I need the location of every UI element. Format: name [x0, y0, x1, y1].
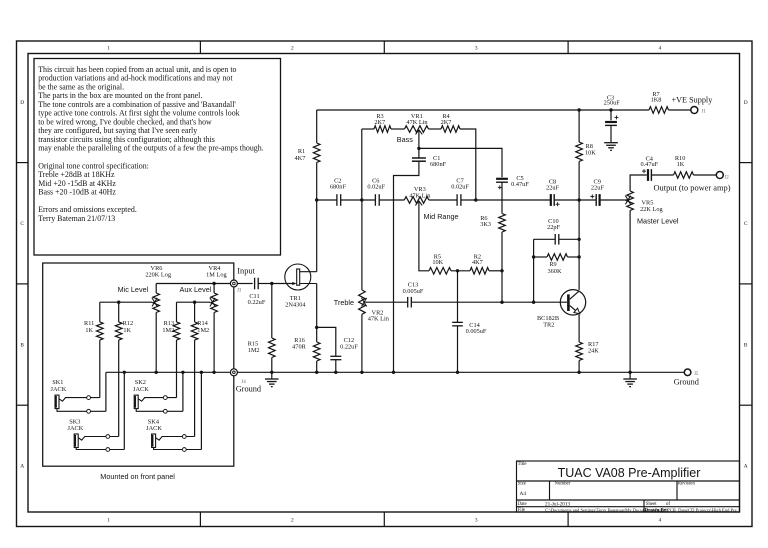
wire panel input line — [156, 283, 230, 285]
svg-text:1M2: 1M2 — [248, 347, 260, 354]
svg-text:be the same as the original.: be the same as the original. — [38, 82, 124, 91]
label C2 value — [330, 178, 347, 191]
label R6 value — [480, 215, 491, 228]
capacitor C9 — [596, 194, 599, 206]
label Input — [237, 266, 255, 275]
resistor R8 — [576, 142, 583, 162]
transistor TR1 gate arrow — [292, 282, 296, 285]
svg-text:360K: 360K — [548, 268, 562, 275]
svg-text:Treble +28dB at 18KHz: Treble +28dB at 18KHz — [38, 170, 115, 179]
wire VR5 bottom leg — [629, 211, 631, 373]
capacitor C6 — [375, 194, 379, 206]
svg-text:47K Lin: 47K Lin — [368, 315, 390, 322]
svg-text:1: 1 — [107, 45, 110, 51]
resistor R6 — [499, 214, 506, 233]
label C6 value — [367, 178, 385, 191]
svg-text:Drawn By:: Drawn By: — [645, 508, 669, 513]
svg-text:Mic Level: Mic Level — [118, 285, 149, 294]
svg-text:47K Lin: 47K Lin — [406, 119, 428, 126]
transistor TR1 channel bar — [297, 269, 300, 285]
wire feedback left leg — [533, 239, 535, 302]
svg-text:0.005uF: 0.005uF — [466, 328, 487, 335]
wire R6 to R2 node — [501, 232, 503, 271]
wire C3 top — [610, 110, 612, 120]
resistor R9 — [547, 254, 568, 261]
note text box — [34, 59, 281, 256]
svg-text:Treble: Treble — [334, 298, 354, 307]
wire node to C1 — [418, 148, 420, 158]
wire C14 to ground rail — [457, 326, 459, 372]
svg-text:TUAC VA08 Pre-Amplifier: TUAC VA08 Pre-Amplifier — [558, 466, 701, 480]
transistor TR1 source stroke — [300, 283, 317, 285]
wire VR1 wiper down — [418, 130, 420, 148]
svg-text:0.47uF: 0.47uF — [511, 181, 529, 188]
capacitor C5 — [496, 179, 508, 182]
junction SK2 sleeve / ground rail — [181, 371, 184, 374]
svg-text:2K7: 2K7 — [441, 119, 452, 126]
junction base row / R2-R6 — [500, 301, 503, 304]
label VR2 value — [368, 310, 390, 323]
svg-text:0.005uF: 0.005uF — [403, 288, 424, 295]
svg-text:0.02uF: 0.02uF — [451, 184, 469, 191]
svg-text:680nF: 680nF — [330, 184, 347, 191]
svg-text:2N4304: 2N4304 — [285, 301, 306, 308]
wire C13 to TR2 base — [411, 301, 567, 303]
wire C7 to C8 — [461, 199, 551, 201]
resistor R12 — [115, 322, 122, 340]
wire C5 to R6 — [501, 182, 503, 213]
label SK4 — [146, 418, 162, 432]
capacitor C1 — [412, 158, 426, 161]
wire rail to R8 — [578, 110, 580, 142]
wire C10 right — [559, 238, 579, 240]
svg-text:22uF: 22uF — [546, 185, 559, 192]
wire wiper to R12 — [118, 302, 120, 322]
resistor R16 — [313, 342, 320, 361]
resistor R17 — [576, 342, 583, 361]
label Ground left — [236, 384, 262, 393]
wire C14 top — [457, 271, 459, 322]
wire gate node to TR1 — [272, 283, 295, 285]
junction feedback leg / R9 — [532, 255, 535, 258]
connector SK3 — [74, 434, 124, 451]
wire VR5 top leg — [630, 175, 647, 191]
capacitor C14 — [452, 322, 463, 326]
junction top rail / R8 — [577, 108, 580, 111]
ground below VR5 — [623, 379, 637, 387]
junction VR2 / ground rail — [360, 371, 363, 374]
junction VR5 / ground rail — [628, 371, 631, 374]
resistor R10 — [674, 172, 694, 179]
wire R14 to SK4 tip — [194, 340, 196, 436]
label VR4 value — [206, 265, 227, 278]
svg-text:Revision: Revision — [678, 482, 696, 487]
wire R11 to SK1 tip — [99, 340, 101, 398]
label R1 value — [295, 148, 306, 162]
resistor R1 — [313, 143, 320, 163]
resistor R7 — [649, 107, 669, 114]
label C7 value — [451, 178, 469, 191]
svg-text:J5: J5 — [694, 372, 699, 377]
label VR5 value — [640, 200, 663, 214]
svg-text:1: 1 — [107, 517, 110, 523]
wire bass leg down — [361, 129, 363, 200]
wire gate node to R15 — [271, 284, 273, 339]
wire VR2 wiper to C13 — [364, 301, 408, 303]
svg-text:they are configured, but sayin: they are configured, but saying that I'v… — [38, 126, 197, 135]
svg-text:+VE Supply: +VE Supply — [672, 96, 714, 105]
label SK2 — [133, 379, 149, 393]
resistor R5 — [429, 268, 451, 275]
node source / R16 / C12 — [315, 326, 318, 329]
junction R17 / ground rail — [577, 371, 580, 374]
svg-text:A: A — [744, 464, 748, 470]
node C11 / R15 / TR1 gate — [270, 282, 273, 285]
junction VR4 top / input line — [212, 282, 215, 285]
svg-text:C: C — [744, 221, 748, 227]
potentiometer VR6 element — [153, 293, 160, 313]
ground below R15 — [265, 379, 279, 387]
svg-text:1K8: 1K8 — [651, 97, 662, 104]
resistor R15 — [269, 338, 276, 358]
svg-text:Original tone control specific: Original tone control specification: — [38, 161, 149, 170]
svg-text:R1: R1 — [298, 148, 305, 155]
label C5 value — [511, 175, 529, 188]
svg-text:0.02uF: 0.02uF — [367, 184, 385, 191]
svg-text:JACK: JACK — [146, 425, 162, 432]
capacitor C3 — [605, 122, 617, 125]
wire R3 to VR1 — [391, 128, 405, 130]
svg-text:TR2: TR2 — [543, 322, 554, 329]
label Ground right — [674, 378, 700, 387]
wire wiper node to C5 leg — [419, 148, 502, 177]
label R9 value — [548, 261, 562, 275]
svg-text:0.22uF: 0.22uF — [248, 299, 266, 306]
svg-text:transistor circuits using this: transistor circuits using this configura… — [38, 135, 215, 144]
svg-text:3K3: 3K3 — [480, 221, 491, 228]
svg-text:Terry Bateman 21/07/13: Terry Bateman 21/07/13 — [38, 214, 115, 223]
label C14 value — [466, 322, 487, 335]
junction collector / R9 — [577, 255, 580, 258]
junction VR6 / ground rail — [155, 371, 158, 374]
label C8 value — [546, 179, 559, 192]
wire VR4 top leg — [213, 284, 215, 294]
junction C12 / ground rail — [334, 371, 337, 374]
svg-text:Ground: Ground — [236, 384, 262, 393]
junction C14 / ground rail — [456, 371, 459, 374]
wire C12 to ground rail — [335, 360, 337, 373]
capacitor C4 — [648, 169, 651, 181]
transistor TR1 body — [285, 264, 311, 290]
svg-text:Size: Size — [518, 482, 526, 487]
svg-text:21-Jul-2013: 21-Jul-2013 — [545, 501, 570, 507]
transistor TR2 base bar — [567, 294, 570, 311]
wire C10 left — [534, 238, 556, 240]
transistor TR2 emitter arrow — [574, 308, 580, 314]
label SK1 — [51, 379, 67, 393]
wire +VE rail — [317, 109, 649, 111]
svg-text:Output (to power amp): Output (to power amp) — [654, 183, 731, 192]
svg-text:22pF: 22pF — [547, 224, 560, 231]
node R2 / R6 — [500, 269, 503, 272]
wire ground rail left end to SK1 sleeve — [105, 372, 107, 411]
wire node to R16 — [316, 327, 318, 342]
capacitor C13 — [408, 297, 412, 308]
label TR2 value — [537, 315, 559, 329]
svg-text:Mid +20 -15dB at 4KHz: Mid +20 -15dB at 4KHz — [38, 179, 116, 188]
wire node to C2 — [317, 199, 337, 201]
svg-text:1M Log: 1M Log — [206, 272, 227, 279]
node VR1 wiper / C1 / C5 feed — [417, 147, 420, 150]
svg-text:1K: 1K — [123, 327, 131, 334]
connector SK4 — [152, 434, 202, 451]
svg-text:production variations and ad-h: production variations and ad-hock modifi… — [38, 74, 233, 83]
label TR1 value — [285, 295, 306, 308]
svg-text:22uF: 22uF — [591, 185, 604, 192]
label C4 value — [640, 155, 658, 167]
svg-text:JACK: JACK — [133, 386, 149, 393]
svg-text:J2: J2 — [725, 176, 730, 181]
svg-text:24K: 24K — [588, 348, 599, 355]
svg-text:A4: A4 — [520, 491, 527, 497]
wire R6 node to base row — [501, 271, 503, 302]
wire wiper to R14 — [194, 302, 196, 322]
junction R14 / wiper line — [193, 301, 196, 304]
svg-text:3: 3 — [475, 517, 478, 523]
node R5 / R2 / C14 — [456, 269, 459, 272]
label R13 value — [162, 320, 174, 334]
potentiometer VR2 element — [359, 290, 366, 314]
label R7 value — [651, 91, 662, 104]
capacitor C2 — [337, 194, 341, 206]
label Mounted on front panel — [100, 472, 175, 481]
label R14 value — [197, 320, 209, 334]
wire SK2 sleeve up — [182, 372, 184, 411]
junction SK4 sleeve / ground rail — [200, 371, 203, 374]
terminal J4 — [230, 369, 237, 376]
label VR1 value — [406, 113, 428, 126]
label Mid Range — [424, 212, 459, 221]
potentiometer VR4 wiper arrow — [210, 298, 215, 307]
svg-text:R9: R9 — [549, 261, 556, 268]
svg-text:type active tone controls. At: type active tone controls. At first sigh… — [38, 109, 239, 118]
wire C11 to gate node — [258, 283, 272, 285]
wire R4 right leg — [460, 129, 476, 200]
svg-text:B: B — [20, 342, 24, 348]
label R3 value — [374, 113, 385, 126]
transistor TR2 body — [560, 290, 585, 315]
svg-text:J1: J1 — [702, 110, 707, 115]
svg-text:D: D — [20, 100, 24, 106]
capacitor C8 — [551, 194, 554, 206]
svg-text:2: 2 — [291, 45, 294, 51]
wire C6 to VR3 — [379, 199, 404, 201]
wire R10 to J2 — [694, 174, 717, 176]
terminal J1 — [691, 107, 698, 114]
svg-text:D: D — [744, 100, 748, 106]
svg-text:4K7: 4K7 — [295, 155, 306, 162]
svg-text:C: C — [20, 221, 24, 227]
wire R15 to ground rail — [271, 358, 273, 373]
resistor R14 — [191, 322, 198, 340]
wire VR4 wiper line — [177, 301, 211, 303]
label VR6 value — [145, 265, 172, 278]
potentiometer VR3 wiper arrow — [415, 201, 422, 206]
svg-text:3: 3 — [475, 45, 478, 51]
svg-text:470R: 470R — [292, 343, 306, 350]
svg-text:10K: 10K — [585, 149, 596, 156]
transistor TR2 collector stroke — [570, 291, 580, 299]
label C1 value — [430, 155, 447, 168]
svg-text:C:\Documents and Settings\Terr: C:\Documents and Settings\Terry Bateman\… — [545, 507, 737, 512]
label C11 value — [248, 293, 266, 306]
wire wiper to R11 — [99, 302, 101, 322]
wire rail to R1 — [316, 110, 318, 143]
junction R4 leg / mid rail — [474, 198, 477, 201]
wire R15 ground stub — [271, 372, 273, 379]
svg-text:220K Log: 220K Log — [145, 272, 172, 279]
wire TR1 source down — [316, 284, 318, 328]
junction top rail / C3 — [609, 108, 612, 111]
wire VR1 to R4 — [429, 128, 442, 130]
wire VR5 ground stub — [629, 372, 631, 379]
potentiometer VR5 element — [627, 191, 634, 211]
label C13 value — [403, 282, 424, 295]
svg-text:Title: Title — [518, 462, 527, 467]
wire TR1 drain up — [316, 200, 318, 272]
label SK3 — [68, 418, 84, 432]
label Bass — [397, 135, 413, 144]
potentiometer VR1 element — [405, 126, 429, 133]
wire VR6 wiper line — [100, 301, 152, 303]
junction R8 / mid rail — [577, 198, 580, 201]
label Mic Level — [118, 285, 149, 294]
svg-text:1K: 1K — [85, 327, 93, 334]
connector SK2 — [134, 395, 183, 413]
junction bass leg / mid rail — [360, 198, 363, 201]
wire C4 to R10 — [651, 174, 673, 176]
wire VR6 top leg — [155, 284, 157, 294]
svg-text:to be wired wrong, I've double: to be wired wrong, I've double checked, … — [38, 117, 212, 126]
resistor R2 — [470, 268, 489, 275]
potentiometer VR1 wiper arrow — [416, 130, 423, 135]
label R16 value — [292, 337, 306, 350]
label C3 value — [604, 94, 621, 106]
wire R2 to R6 node — [489, 270, 502, 272]
capacitor C10 — [555, 234, 559, 245]
node TR1 drain / R1 / C2 — [315, 198, 318, 201]
svg-text:Number: Number — [555, 482, 571, 487]
junction VR4 / ground rail — [212, 371, 215, 374]
svg-text:2K7: 2K7 — [374, 119, 385, 126]
svg-text:680nF: 680nF — [430, 161, 447, 168]
label R4 value — [441, 113, 452, 126]
svg-text:1M2: 1M2 — [197, 327, 209, 334]
transistor TR1 drain stroke — [300, 271, 317, 273]
label R12 value — [123, 320, 134, 334]
wire R8 to mid rail — [578, 162, 580, 201]
svg-text:0.47uF: 0.47uF — [640, 161, 658, 168]
svg-text:File: File — [518, 508, 525, 513]
junction SK3 sleeve / ground rail — [123, 371, 126, 374]
wire R9 left lead — [534, 256, 547, 258]
svg-text:1M2: 1M2 — [162, 327, 174, 334]
svg-text:250uF: 250uF — [604, 100, 621, 107]
resistor R11 — [97, 322, 104, 340]
transistor TR2 emitter stroke — [570, 306, 580, 314]
svg-text:Errors and omissions excepted.: Errors and omissions excepted. — [38, 205, 137, 214]
junction base row / feedback leg — [532, 301, 535, 304]
svg-text:J3: J3 — [237, 288, 242, 293]
wire SK4 sleeve up — [200, 372, 202, 449]
svg-text:JACK: JACK — [51, 386, 67, 393]
svg-text:may enable the paralleling of: may enable the paralleling of the output… — [38, 144, 263, 153]
label J3 — [237, 288, 242, 293]
potentiometer VR3 element — [404, 197, 429, 204]
svg-text:Bass +20 -10dB at 40Hz: Bass +20 -10dB at 40Hz — [38, 188, 116, 197]
label VR3 value — [409, 186, 431, 199]
svg-text:Master Level: Master Level — [637, 217, 679, 226]
wire wiper to R13 — [176, 302, 178, 322]
potentiometer VR5 wiper arrow — [625, 196, 630, 205]
potentiometer VR2 wiper arrow — [362, 298, 367, 307]
wire R17 to ground rail — [578, 361, 580, 373]
wire C9 to VR5 wiper — [600, 199, 628, 201]
svg-text:22K Log: 22K Log — [640, 206, 663, 213]
wire VR6 bottom leg — [155, 313, 157, 373]
svg-text:2: 2 — [291, 517, 294, 523]
wire TR2 emitter to R17 — [578, 315, 580, 342]
svg-text:The tone controls are a combin: The tone controls are a combination of p… — [38, 100, 236, 109]
label C12 value — [340, 337, 358, 350]
svg-text:The parts in the box are mount: The parts in the box are mounted on the … — [38, 91, 202, 100]
resistor R3 — [374, 126, 391, 133]
wire source node to C12 leg — [317, 327, 336, 356]
label R2 value — [472, 253, 483, 266]
wire C3 to ground — [610, 125, 612, 142]
svg-text:Date: Date — [518, 502, 527, 507]
label Aux Level — [180, 285, 212, 294]
wire VR2 bottom leg — [361, 314, 363, 372]
potentiometer VR4 element — [211, 293, 218, 313]
resistor R13 — [173, 322, 180, 340]
label Output — [654, 183, 731, 192]
label R17 value — [588, 341, 599, 355]
wire C2 to C6 — [341, 199, 376, 201]
wire TR2 collector leg — [578, 200, 580, 290]
terminal J5 — [684, 369, 691, 376]
svg-text:1K: 1K — [677, 161, 685, 168]
svg-text:Mid Range: Mid Range — [424, 212, 459, 221]
svg-text:A: A — [20, 464, 24, 470]
svg-text:Bass: Bass — [397, 135, 413, 144]
wire C8 to C9 — [554, 199, 596, 201]
svg-text:Mounted on front panel: Mounted on front panel — [100, 472, 175, 481]
svg-text:10K: 10K — [432, 259, 443, 266]
label J4 — [242, 380, 247, 385]
svg-text:JACK: JACK — [68, 425, 84, 432]
label Treble — [334, 298, 354, 307]
wire R12 to SK3 tip — [118, 340, 120, 436]
capacitor C11 — [255, 278, 259, 290]
wire bass leg left — [362, 128, 374, 130]
resistor R4 — [441, 126, 460, 133]
junction R15 / ground rail — [270, 371, 273, 374]
svg-text:Aux Level: Aux Level — [180, 285, 212, 294]
wire J3 to C11 — [237, 283, 252, 285]
ground below C3 — [604, 143, 618, 151]
wire VR4 bottom leg — [213, 313, 215, 373]
